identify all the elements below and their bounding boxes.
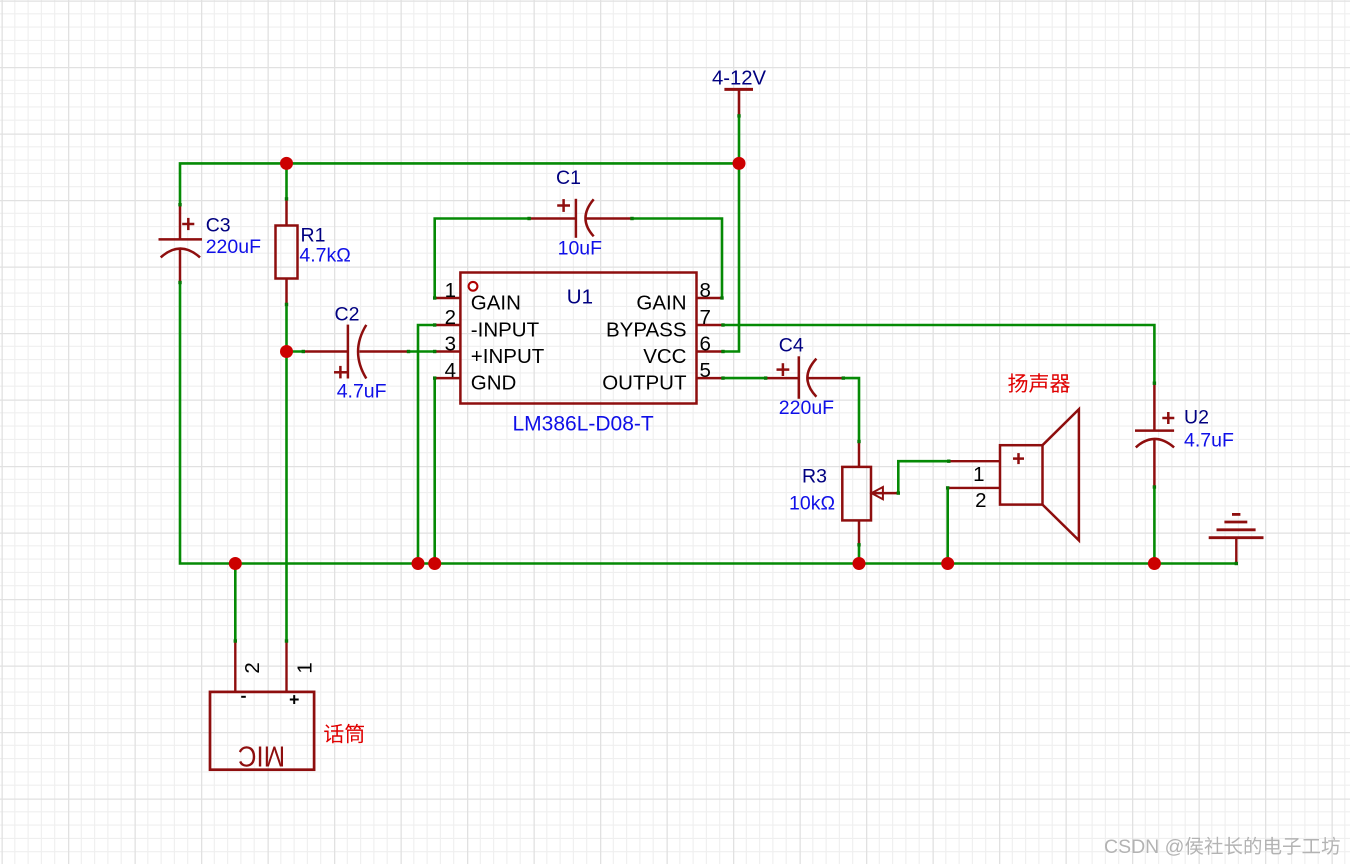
svg-text:GND: GND: [471, 372, 517, 395]
svg-text:MIC: MIC: [238, 740, 285, 772]
wire C2 right lead to U1 pin 3: [409, 350, 435, 353]
U1 pin stubs left 1-4: [435, 298, 461, 378]
wire R3 wiper to speaker pin 1: [898, 461, 949, 493]
svg-text:3: 3: [445, 333, 456, 356]
wire U1 pin 5 OUTPUT to C4: [723, 377, 766, 380]
MIC plus marker: [290, 695, 299, 704]
svg-text:+INPUT: +INPUT: [471, 345, 545, 368]
U1 pin stubs right 8-5: [697, 298, 724, 378]
power symbol 4-12V: [724, 89, 753, 116]
svg-text:2: 2: [241, 662, 264, 673]
svg-text:2: 2: [445, 306, 456, 329]
wire R1 top: [285, 163, 288, 199]
capacitor C3: [159, 205, 203, 283]
svg-text:4.7kΩ: 4.7kΩ: [299, 245, 350, 267]
wire power stem: [738, 116, 741, 163]
node junction top rail / VCC: [733, 157, 746, 170]
capacitor C4: [766, 356, 844, 399]
svg-text:7: 7: [700, 306, 711, 329]
wire U1 pin 1 to C1 left: [435, 219, 529, 299]
speaker symbol: [948, 409, 1079, 540]
wire R3 bottom to ground rail: [858, 545, 861, 564]
wire U1 pin 7 BYPASS to U2 top: [723, 325, 1154, 383]
ground symbol: [1209, 514, 1264, 563]
svg-text:R1: R1: [301, 225, 326, 247]
svg-text:-INPUT: -INPUT: [471, 319, 540, 342]
wire VCC node down to U1 pin 6: [723, 163, 739, 351]
svg-text:4.7uF: 4.7uF: [337, 381, 387, 403]
svg-text:C4: C4: [779, 335, 804, 357]
wire C1 right to U1 pin 8: [632, 219, 722, 299]
capacitor C2: [303, 325, 408, 379]
wire U1 pin 4 to ground rail: [433, 378, 436, 563]
U1 pin names right: [602, 292, 687, 395]
wire node A to C2 left lead: [287, 350, 304, 353]
svg-text:10kΩ: 10kΩ: [789, 493, 835, 515]
wire speaker pin 2 to ground rail: [946, 488, 949, 564]
svg-text:2: 2: [975, 489, 986, 512]
svg-text:4: 4: [445, 359, 456, 382]
svg-text:10uF: 10uF: [558, 238, 603, 260]
wire top rail from C3 top to VCC node: [180, 163, 739, 204]
capacitor C1: [529, 199, 632, 238]
svg-text:VCC: VCC: [643, 345, 686, 368]
U1 pin numbers right: [700, 279, 711, 382]
svg-text:GAIN: GAIN: [636, 292, 686, 315]
svg-text:6: 6: [700, 333, 711, 356]
svg-text:1: 1: [973, 463, 984, 486]
svg-text:CSDN @: CSDN @: [1104, 836, 1184, 858]
label microphone (Chinese): [324, 724, 364, 743]
U1 pin numbers left: [445, 279, 456, 382]
svg-text:GAIN: GAIN: [471, 292, 521, 315]
svg-text:C2: C2: [335, 304, 360, 326]
svg-text:220uF: 220uF: [206, 236, 261, 258]
svg-text:1: 1: [445, 279, 456, 302]
wire endpoint nubs: [178, 114, 1238, 643]
node junction ground rail / speaker pin 2: [941, 557, 954, 570]
node junction ground rail / U2: [1148, 557, 1161, 570]
potentiometer R3: [842, 442, 898, 545]
node junction ground rail / U1 pin 2: [412, 557, 425, 570]
svg-text:5: 5: [700, 359, 711, 382]
svg-text:4.7uF: 4.7uF: [1184, 430, 1234, 452]
MIC minus marker: [241, 696, 246, 698]
op-amp U1 LM386 body: [460, 273, 696, 404]
node junction top rail / R1: [280, 157, 293, 170]
svg-text:U1: U1: [567, 286, 593, 309]
resistor R1: [276, 199, 298, 305]
node junction ground rail / MIC pin 2: [229, 557, 242, 570]
svg-text:R3: R3: [802, 466, 827, 488]
label speaker (Chinese): [1008, 373, 1070, 393]
wire MIC pin 2 to ground rail: [234, 564, 237, 642]
U1 pin names left: [471, 292, 545, 395]
svg-text:LM386L-D08-T: LM386L-D08-T: [513, 413, 654, 436]
svg-text:1: 1: [294, 662, 317, 673]
wire R1 bottom to node A: [285, 304, 288, 351]
wire C4 right to R3 top: [843, 378, 859, 441]
svg-text:U2: U2: [1184, 407, 1209, 429]
svg-text:8: 8: [700, 279, 711, 302]
wire U2 bottom to ground rail: [1153, 487, 1156, 564]
wire U1 pin 2 to ground rail: [418, 325, 435, 564]
wire C3 bottom and ground bottom rail: [180, 283, 1236, 564]
svg-text:220uF: 220uF: [779, 397, 834, 419]
svg-text:C3: C3: [206, 215, 231, 237]
svg-text:4-12V: 4-12V: [712, 67, 767, 89]
capacitor U2: [1135, 383, 1174, 487]
node junction ground rail / U1 pin 4: [428, 557, 441, 570]
svg-text:OUTPUT: OUTPUT: [602, 372, 687, 395]
node junction R1 / C2 / MIC+: [280, 345, 293, 358]
svg-text:BYPASS: BYPASS: [606, 319, 687, 342]
U1 pin 1 dot marker: [469, 282, 478, 291]
node junction ground rail / R3: [853, 557, 866, 570]
wire node A down to MIC pin 1: [285, 352, 288, 642]
svg-text:C1: C1: [556, 167, 581, 189]
microphone MIC box: [210, 641, 314, 770]
